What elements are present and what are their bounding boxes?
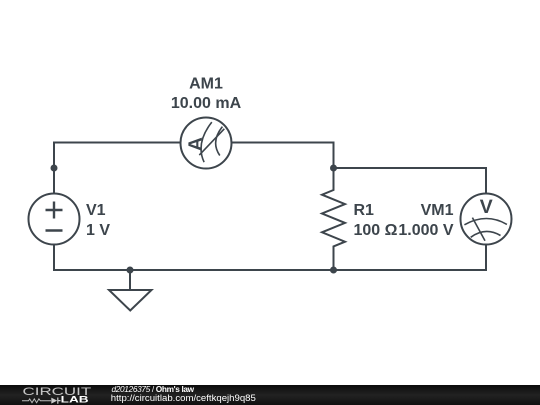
node R1 top: [330, 165, 337, 172]
ammeter AM1: [181, 118, 232, 169]
svg-text:100 Ω: 100 Ω: [354, 222, 398, 239]
svg-text:10.00 mA: 10.00 mA: [171, 95, 242, 112]
svg-text:VM1: VM1: [421, 202, 454, 219]
wire top-right: ammeter to corner down to node: [232, 143, 334, 169]
svg-text:LAB: LAB: [61, 394, 89, 405]
svg-text:V1: V1: [86, 202, 106, 219]
ground: [109, 290, 152, 311]
footer bar: [0, 385, 540, 405]
voltage source V1: [29, 194, 80, 245]
logo resistor squiggle: [22, 399, 51, 403]
wire top-left: V1 top lead up and across to ammeter: [54, 143, 181, 194]
svg-text:AM1: AM1: [189, 76, 223, 93]
node ground: [127, 267, 134, 274]
node R1 bottom: [330, 267, 337, 274]
svg-text:http://circuitlab.com/ceftkqej: http://circuitlab.com/ceftkqejh9q85: [111, 393, 256, 404]
svg-text:1.000 V: 1.000 V: [398, 222, 453, 239]
svg-text:R1: R1: [354, 202, 375, 219]
svg-text:1 V: 1 V: [86, 222, 110, 239]
wire voltmeter top branch: [334, 168, 487, 194]
wire ground stem: [129, 270, 131, 290]
resistor R1: [322, 168, 345, 270]
voltmeter VM1: [461, 194, 512, 245]
wire bottom rail: [54, 245, 486, 271]
node V1 top: [51, 165, 58, 172]
logo diode: [51, 398, 57, 404]
